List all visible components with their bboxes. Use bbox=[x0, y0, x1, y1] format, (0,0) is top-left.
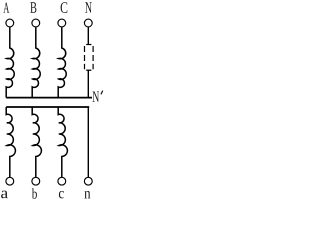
node label N' bbox=[93, 92, 100, 102]
terminal label b bbox=[32, 188, 37, 198]
secondary winding coil phase a (tail + 4 arcs + wire) bbox=[6, 107, 15, 177]
secondary winding coil phase c bbox=[58, 107, 67, 177]
prime mark of N' bbox=[101, 91, 103, 95]
removable neutral link: dashed outline left side bbox=[84, 46, 86, 69]
primary winding coil phase B bbox=[32, 27, 40, 98]
removable neutral link: bottom terminal bar bbox=[86, 69, 91, 71]
terminal circle A bbox=[6, 19, 14, 27]
primary neutral bus N' bbox=[6, 97, 92, 99]
removable neutral link: dashed outline right side bbox=[92, 46, 94, 69]
wire N terminal to link bbox=[87, 27, 89, 44]
wire secondary neutral to terminal n bbox=[87, 107, 89, 177]
terminal circle c bbox=[58, 177, 66, 185]
terminal circle B bbox=[32, 19, 40, 27]
terminal circle C bbox=[58, 19, 66, 27]
terminal circle b bbox=[32, 177, 40, 185]
terminal label A bbox=[3, 3, 9, 13]
terminal label c bbox=[59, 191, 64, 199]
removable neutral link: top terminal bar bbox=[86, 44, 91, 46]
secondary neutral bus bbox=[6, 106, 89, 108]
primary winding coil phase C bbox=[58, 27, 66, 98]
secondary winding coil phase b bbox=[32, 107, 41, 177]
terminal circle N bbox=[84, 19, 92, 27]
terminal circle n bbox=[84, 177, 92, 185]
terminal label C bbox=[61, 2, 68, 13]
terminal label n bbox=[84, 191, 90, 198]
terminal label a bbox=[1, 191, 8, 199]
wire link to neutral bus N' bbox=[87, 70, 89, 97]
terminal circle a bbox=[6, 177, 14, 185]
terminal label N bbox=[85, 2, 92, 13]
terminal label B bbox=[30, 2, 36, 13]
primary winding coil phase A (wire + 4 arcs + tail) bbox=[6, 27, 14, 98]
